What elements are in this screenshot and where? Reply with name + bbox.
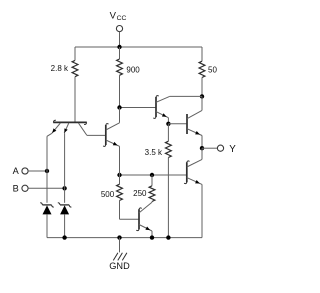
value label 250: [133, 189, 147, 198]
node 3.5k at rail: [166, 235, 170, 239]
node input A junction: [45, 169, 49, 173]
wire Q1 emitter-1 to diode D1: [46, 136, 48, 203]
resistor R5 500 (Q2 emitter to Q6 base): [117, 175, 139, 219]
wire Q1 collector to Q2 base: [87, 134, 106, 136]
svg-text:A: A: [13, 166, 20, 176]
svg-text:CC: CC: [117, 15, 127, 22]
value label 3.5 k: [145, 148, 163, 157]
node D2 at ground rail: [62, 235, 66, 239]
diode D2 (schottky input clamp, B): [58, 203, 72, 238]
resistor R6 250 (node to Q6 collector): [149, 175, 155, 202]
wire VCC terminal to top rail: [119, 32, 121, 47]
ground GND symbol: [113, 238, 127, 261]
wire top VCC rail: [75, 46, 202, 48]
node Q2 emitter / 500 junction: [117, 173, 121, 177]
svg-text:500: 500: [101, 190, 115, 199]
svg-text:V: V: [110, 11, 117, 22]
transistor Q3 (schottky darlington driver): [153, 96, 169, 124]
node 250 junction: [150, 173, 154, 177]
label GND: [109, 261, 130, 271]
value label 2.8 k: [51, 64, 69, 73]
node Q2 collector / 900 / Q3 base: [117, 105, 121, 109]
wire node to Q4 base: [168, 123, 187, 125]
value label 900: [126, 65, 140, 74]
node input B junction: [62, 186, 66, 190]
node VCC rail junction: [117, 45, 121, 49]
node Q6 emitter at rail: [150, 235, 154, 239]
node 50-ohm / Q3 collector junction: [200, 94, 204, 98]
output terminal Y: [217, 144, 236, 155]
resistor R2 900 (VCC to Q2 collector): [117, 47, 123, 108]
transistor Q6 (schottky squaring network): [136, 202, 152, 237]
input terminal B: [13, 184, 28, 194]
wire bottom ground rail: [47, 237, 202, 239]
svg-text:B: B: [13, 184, 19, 194]
value label 500: [101, 190, 115, 199]
svg-text:900: 900: [126, 65, 140, 74]
wire Q1 emitter-2 to diode D2: [64, 133, 66, 203]
transistor Q2 (schottky phase splitter): [103, 108, 119, 176]
wire Q2 emitter node to Q5 base: [120, 174, 187, 176]
value label 50: [208, 65, 217, 74]
wire Y node to terminal: [202, 147, 217, 149]
power terminal VCC: [110, 11, 127, 32]
resistor R1 2.8 k (VCC to Q1 base): [72, 47, 78, 122]
svg-text:50: 50: [208, 65, 217, 74]
wire Q3 collector to 50-ohm node: [170, 95, 202, 97]
svg-text:Y: Y: [229, 144, 236, 155]
transistor Q1 (schottky multi-emitter input): [47, 120, 87, 136]
svg-text:2.8 k: 2.8 k: [51, 64, 69, 73]
svg-text:3.5 k: 3.5 k: [145, 148, 163, 157]
input terminal A: [13, 166, 28, 176]
node Q3 emitter / Q4 base / 3.5k: [166, 122, 170, 126]
diode D1 (schottky input clamp, A): [40, 203, 54, 238]
resistor R3 50 (VCC to output darlington collector): [199, 47, 205, 96]
wire input B: [28, 187, 64, 189]
resistor R4 3.5 k (Q4 base to ground rail): [166, 124, 172, 238]
node output Y junction: [200, 146, 204, 150]
svg-text:250: 250: [133, 189, 147, 198]
transistor Q4 (darlington output): [187, 96, 202, 148]
node GND tap at rail: [117, 235, 121, 239]
wire 900-node to Q3 base: [120, 107, 157, 109]
transistor Q5 (schottky output pull-down): [184, 148, 202, 237]
wire input A: [28, 170, 47, 172]
svg-text:GND: GND: [109, 261, 130, 271]
